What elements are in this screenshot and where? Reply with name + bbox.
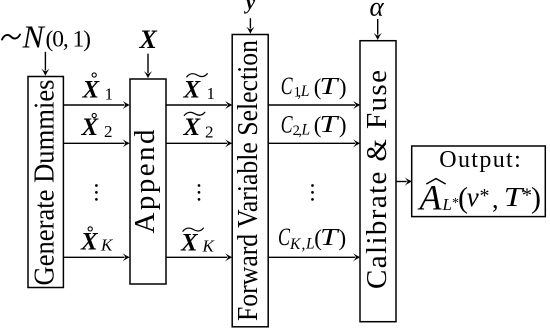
wire Calibrate & Fuse to Output box [396,177,412,185]
label tilde-X_1 [183,74,216,104]
svg-text:X: X [183,77,202,104]
label tilde-X_2 [183,112,214,141]
svg-text:K: K [202,237,216,256]
wire row1 Generate Dummies to Append [64,101,130,109]
svg-text:X: X [81,114,100,141]
svg-text:Forward Variable Selection: Forward Variable Selection [232,40,264,321]
wire row1 Forward Variable Selection to Calibrate & Fuse [269,101,361,109]
label tilde-X_K [180,228,216,257]
label ring-X_1 [82,73,114,104]
wire arrow from y into Forward Variable Selection box [246,18,254,34]
svg-text:,: , [492,185,499,214]
svg-text:1: 1 [207,84,216,103]
wire row2 Append to Forward Variable Selection [166,139,232,147]
svg-text:): ) [339,226,347,251]
label C_KL(T) rowK [278,224,346,253]
svg-text:L: L [442,195,452,214]
svg-text:): ) [339,113,347,138]
label A-hat_L*(v*,T*) inside Output box [418,178,542,218]
svg-text:C: C [281,111,293,138]
wire row1 Append to Forward Variable Selection [166,101,232,109]
wire row2 Forward Variable Selection to Calibrate & Fuse [269,139,361,147]
wire arrow from X into Append box [144,54,152,79]
svg-text:X: X [183,114,202,141]
svg-text:v: v [467,182,479,212]
label ring-X_K [80,227,114,256]
svg-text:T: T [319,74,339,100]
svg-text:L: L [305,235,315,252]
label ~N(0,1) [2,19,91,55]
svg-text:K: K [100,236,114,255]
svg-text:Output:: Output: [439,147,521,173]
wire rowK Append to Forward Variable Selection [166,253,232,261]
wire arrow from N(0,1) into Generate Dummies box [41,52,49,76]
box Forward Variable Selection [232,35,268,327]
box Append [129,79,166,284]
svg-text:X: X [180,230,199,257]
wire row2 Generate Dummies to Append [64,139,130,147]
wire arrow from alpha into Calibrate & Fuse box [374,19,382,40]
svg-text:N: N [22,19,46,55]
svg-text:2: 2 [104,122,113,141]
box Output [412,146,546,217]
svg-text:X: X [139,25,158,54]
wire rowK Forward Variable Selection to Calibrate & Fuse [269,253,361,261]
box Generate Dummies [28,77,63,288]
svg-text:Append: Append [129,129,161,234]
svg-text:): ) [531,182,541,215]
svg-text:X: X [80,229,99,256]
label C_1L(T) row1 [281,73,347,101]
svg-text:K: K [289,236,301,253]
svg-text:(0, 1): (0, 1) [46,27,92,53]
svg-text:X: X [82,77,101,104]
label C_2L(T) row2 [281,111,347,139]
svg-text:A: A [418,178,443,218]
svg-text:T: T [319,112,339,138]
svg-text:Generate Dummies: Generate Dummies [29,80,61,286]
svg-text:T: T [320,225,340,251]
box Calibrate & Fuse [360,41,396,322]
svg-text:C: C [278,224,290,251]
svg-text:1: 1 [105,85,114,104]
svg-text:L: L [301,122,311,139]
svg-text:Calibrate & Fuse: Calibrate & Fuse [361,70,393,289]
svg-text:*: * [480,185,490,207]
vdots between Generate Dummies and Append [95,184,98,201]
vdots between Forward Variable Selection and Calibrate & Fuse [311,184,314,201]
svg-text:α: α [370,0,385,22]
svg-text:,: , [302,236,306,253]
wire rowK Generate Dummies to Append [64,253,130,261]
svg-text:2: 2 [205,123,214,142]
label ring-X_2 [81,113,113,141]
svg-text:L: L [300,83,310,100]
svg-text:): ) [339,74,347,99]
vdots between Append and Forward Variable Selection [198,184,201,201]
svg-text:C: C [281,73,293,100]
